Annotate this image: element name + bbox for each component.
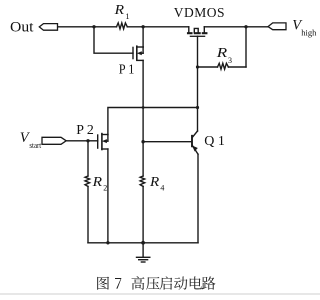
resistor R1 xyxy=(117,23,128,29)
wire P1 source vertical xyxy=(142,27,144,47)
wire mid bus horizontal (P2 source to VDMOS gate stem) xyxy=(108,108,198,135)
wire bottom rail xyxy=(88,242,198,244)
svg-text:R: R xyxy=(216,46,228,61)
svg-text:1: 1 xyxy=(125,11,129,21)
scan artifact gray band at bottom xyxy=(0,293,320,295)
node mid bus / P1 drain crossing xyxy=(142,106,145,109)
svg-text:R: R xyxy=(92,175,103,190)
svg-text:R: R xyxy=(149,175,160,190)
wire gate stem down to mid bus node xyxy=(197,67,199,108)
svg-text:R: R xyxy=(114,3,125,18)
wire Q1 emitter vertical down to rail xyxy=(197,154,199,243)
svg-text:VDMOS: VDMOS xyxy=(174,5,225,20)
wire R3 to right riser xyxy=(228,66,246,68)
wire P1 gate: down from Out node then right to gate bar xyxy=(94,27,133,53)
wire R2 branch: down from Vstart node xyxy=(87,141,89,176)
svg-text:2: 2 xyxy=(103,183,107,192)
resistor R2 xyxy=(85,176,90,186)
wire R3 right riser up to top rail xyxy=(245,27,247,67)
wire ground stem xyxy=(142,243,144,257)
node R1/P1-source junction xyxy=(141,25,144,28)
terminal Vhigh (arrow connector) xyxy=(268,23,286,30)
svg-text:P 2: P 2 xyxy=(76,123,94,138)
svg-text:Out: Out xyxy=(10,20,34,36)
terminal Vstart (arrow connector) xyxy=(42,137,66,144)
wire P1 source node to VDMOS source stub xyxy=(143,26,189,28)
transistor VDMOS xyxy=(188,27,206,37)
wire R1 to P1 source node xyxy=(127,26,143,28)
wire mid bus node down to Q1 collector xyxy=(197,108,199,132)
wire VDMOS drain stub to Vhigh terminal xyxy=(204,26,268,28)
resistor R4 xyxy=(140,176,145,186)
terminal Out (arrow connector) xyxy=(39,24,57,31)
svg-text:start: start xyxy=(29,140,41,150)
wire VDMOS gate stem down to R3 node xyxy=(197,36,199,67)
wire R3 branch left segment xyxy=(198,66,218,68)
node top rail / R3 riser junction xyxy=(244,25,247,28)
svg-text:3: 3 xyxy=(228,56,232,65)
wire Vstart lead xyxy=(66,140,98,142)
wire Q1 base (from R4 line to base bar) xyxy=(143,141,191,143)
caption: 图 7 高压启动电路 (drawn as glyph outline paths) xyxy=(97,276,215,290)
resistor R3 xyxy=(218,63,229,69)
node gate stem / R3 junction xyxy=(196,65,199,68)
wire P1 drain / R4 branch vertical (down to bottom rail) xyxy=(142,60,144,176)
ground xyxy=(137,257,150,262)
wire R2 bottom to rail xyxy=(87,187,89,243)
node ground / bottom rail junction xyxy=(141,241,145,245)
svg-text:4: 4 xyxy=(160,183,164,192)
wire P2 drain vertical down to bottom rail xyxy=(107,149,109,243)
transistor P1 (PMOS) xyxy=(133,46,143,60)
node Vstart / R2 junction xyxy=(86,139,89,142)
node Out/R1/P1-gate junction xyxy=(92,25,95,28)
svg-text:P 1: P 1 xyxy=(119,61,135,76)
svg-text:Q 1: Q 1 xyxy=(204,134,225,149)
wire top rail left segment (Out terminal to R1) xyxy=(58,26,117,28)
node gate stem / mid bus junction xyxy=(196,106,199,109)
svg-text:high: high xyxy=(301,28,317,38)
wire R4 bottom to rail xyxy=(142,186,144,242)
node Q1 base / R4 line junction xyxy=(141,140,144,143)
transistor Q1 (PNP) xyxy=(192,131,198,154)
transistor P2 (PMOS) xyxy=(98,134,108,150)
node P2 drain / bottom rail junction xyxy=(106,241,109,244)
